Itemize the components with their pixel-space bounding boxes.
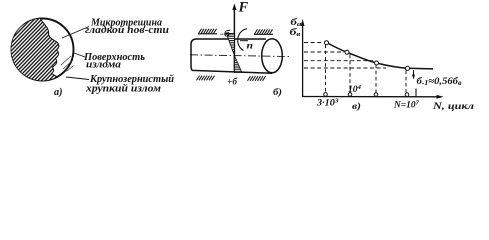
leader line to fracture surface — [74, 53, 85, 57]
leader line to microcrack — [62, 27, 89, 39]
leader line to coarse-grained zone — [66, 77, 89, 80]
Wöhler curve — [327, 43, 434, 69]
rotation arc n — [238, 29, 247, 51]
data point 3 — [375, 61, 379, 65]
shaft end ellipse — [262, 39, 283, 73]
data point 2 — [345, 50, 349, 54]
dimension line sigma-1 lower — [415, 89, 417, 97]
svg-text:3·103: 3·103 — [316, 98, 339, 108]
sparse coarse-grain hatch strokes lower-right — [61, 56, 74, 72]
support hatch bottom-left — [197, 76, 215, 81]
support hatch top-left — [198, 29, 217, 34]
dashed drop line 1 — [325, 45, 327, 93]
svg-text:F: F — [238, 0, 249, 16]
shaft centerline dash-dot — [190, 55, 291, 57]
hatched fatigue fracture zone — [11, 19, 59, 81]
axis foot circle 4 — [405, 93, 409, 97]
svg-text:б-1≈0,56бв: б-1≈0,56бв — [417, 76, 462, 87]
dashed level line 1 — [304, 42, 323, 44]
support hatch top-right — [254, 29, 273, 34]
axis foot circle 1 — [324, 93, 328, 97]
dashed level line 3 — [304, 60, 373, 62]
svg-text:гладкой пов-сти: гладкой пов-сти — [85, 25, 169, 36]
dashed level line 4 (endurance limit) — [304, 67, 386, 69]
dimension arrow sigma-1 upper — [413, 70, 415, 78]
svg-text:N=107: N=107 — [393, 100, 420, 110]
compression stress triangle (top, hatched) — [226, 34, 234, 56]
fracture zone boundary line — [40, 19, 59, 77]
svg-text:N, цикл: N, цикл — [432, 102, 474, 112]
svg-text:в): в) — [352, 101, 361, 112]
x-axis — [302, 96, 440, 98]
data point 1 — [325, 41, 329, 45]
data point 4 — [405, 66, 409, 70]
svg-text:+б: +б — [227, 77, 238, 88]
svg-text:б): б) — [273, 87, 282, 98]
svg-text:n: n — [247, 42, 254, 52]
support hatch bottom-right — [248, 76, 266, 81]
y-axis — [302, 22, 304, 97]
force F line with arrow — [233, 6, 235, 72]
tension stress triangle (bottom, hatched) — [234, 56, 242, 73]
axis foot circle 2 — [348, 93, 352, 97]
dashed drop line 3 — [375, 65, 377, 93]
dashed drop line 2 — [349, 55, 351, 93]
dashed level line 2 — [304, 51, 344, 53]
svg-text:бв: бв — [290, 27, 301, 38]
dashed drop line 4 — [405, 71, 407, 93]
svg-text:излома: излома — [86, 60, 121, 71]
svg-text:104: 104 — [348, 84, 362, 94]
axis foot circle 3 — [374, 93, 378, 97]
svg-text:-б: -б — [220, 29, 232, 40]
cylinder shaft body (b) — [191, 39, 272, 73]
svg-text:хрупкий излом: хрупкий излом — [85, 84, 161, 95]
specimen cross-section circle (a) — [12, 19, 74, 81]
svg-text:а): а) — [54, 87, 63, 98]
